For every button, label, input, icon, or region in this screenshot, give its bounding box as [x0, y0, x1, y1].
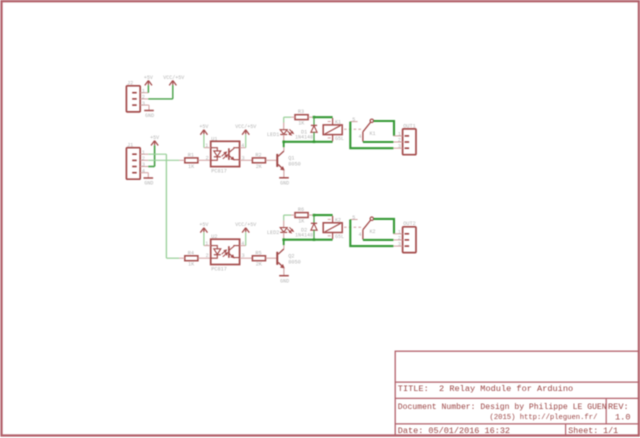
svg-text:2: 2	[142, 95, 145, 101]
svg-text:1: 1	[398, 229, 401, 235]
resistor R4	[179, 250, 211, 267]
svg-text:3: 3	[142, 162, 145, 168]
junction top rail	[313, 214, 316, 217]
mechanical link K1	[344, 128, 362, 130]
optocoupler U2	[205, 234, 244, 272]
document number text	[398, 403, 607, 412]
svg-text:5: 5	[352, 215, 355, 221]
svg-text:K1: K1	[335, 119, 341, 125]
junction bottom rail at LED	[282, 141, 285, 144]
svg-text:1K: 1K	[188, 164, 195, 170]
svg-text:G5L: G5L	[335, 234, 344, 240]
diode D1	[295, 117, 317, 141]
svg-text:1: 1	[398, 131, 401, 137]
svg-text:GND: GND	[145, 113, 154, 119]
svg-text:K1: K1	[370, 131, 376, 137]
svg-text:TITLE: 2 Relay Module for Ard: TITLE: 2 Relay Module for Arduino	[398, 384, 573, 394]
svg-text:VCC/+5V: VCC/+5V	[163, 75, 184, 81]
svg-text:VCC/+5V: VCC/+5V	[235, 124, 256, 130]
svg-text:2K: 2K	[256, 164, 263, 170]
U1 pin stubs	[204, 148, 253, 161]
svg-text:2: 2	[142, 156, 145, 162]
svg-text:R1: R1	[188, 152, 194, 158]
relay coil K1	[323, 118, 344, 142]
svg-text:REV:: REV:	[608, 402, 629, 412]
junction top rail	[313, 116, 316, 119]
OUT2 pin stubs	[393, 234, 402, 246]
LED LED2	[267, 215, 294, 239]
svg-text:2: 2	[398, 138, 401, 144]
connector OUT2	[403, 221, 416, 252]
resistor R1	[179, 152, 211, 169]
svg-text:+5V: +5V	[199, 222, 208, 228]
svg-text:R2: R2	[255, 152, 261, 158]
svg-text:2: 2	[206, 155, 209, 161]
svg-text:OUT2: OUT2	[403, 221, 415, 227]
svg-text:(2015) http://pleguen.fr/: (2015) http://pleguen.fr/	[490, 414, 598, 422]
junction bottom rail at LED	[282, 238, 285, 241]
svg-text:4: 4	[359, 232, 362, 238]
power VCC/+5V at U2 pin4	[235, 222, 256, 246]
ground at J2	[144, 111, 154, 120]
svg-text:PC817: PC817	[211, 267, 227, 273]
wire K1 NO contact to OUT1 pin1	[374, 121, 394, 136]
wire +5V to J1 pin3	[148, 166, 154, 168]
svg-text:8050: 8050	[288, 260, 300, 266]
U2 pin stubs	[204, 246, 253, 259]
svg-text:J1: J1	[127, 142, 133, 148]
svg-text:8050: 8050	[288, 162, 300, 168]
J1 pin numbers 1 2 3 4	[142, 150, 145, 175]
title text	[398, 384, 573, 394]
svg-text:GND: GND	[280, 180, 289, 186]
svg-text:+5V: +5V	[199, 124, 208, 130]
ground at Q2 emitter	[279, 276, 289, 285]
svg-text:3: 3	[142, 101, 145, 107]
wire Q2 collector to rail	[283, 240, 285, 245]
relay contact K2	[350, 215, 375, 240]
junction bottom rail at diode	[313, 238, 316, 241]
svg-text:Document Number: Design by Phi: Document Number: Design by Philippe LE G…	[398, 403, 607, 412]
OUT1 pin stubs	[393, 136, 402, 148]
relay contact K1	[350, 117, 375, 142]
svg-text:1.0: 1.0	[615, 413, 630, 423]
svg-text:U2: U2	[211, 234, 217, 240]
wire bottom rail LED2 to coil K2	[284, 239, 333, 241]
svg-text:K2: K2	[370, 229, 376, 235]
svg-text:R4: R4	[188, 250, 194, 256]
title block frame	[395, 351, 638, 435]
sheet text	[568, 426, 618, 436]
power +5V at J2	[144, 75, 153, 93]
connector OUT1	[403, 123, 416, 154]
svg-text:GND: GND	[280, 278, 289, 284]
wire K2 NO contact to OUT2 pin1	[374, 219, 394, 234]
svg-text:Sheet: 1/1: Sheet: 1/1	[568, 426, 618, 436]
rev label	[608, 402, 629, 412]
OUT2 pin numbers 1 2 3	[398, 229, 401, 247]
J2 pin numbers 1 2 3	[142, 88, 145, 106]
svg-text:R3: R3	[298, 109, 304, 115]
svg-text:3: 3	[398, 144, 401, 150]
svg-text:1K: 1K	[188, 262, 195, 268]
document number text line2	[490, 414, 598, 422]
wire top rail to relay coil K1	[314, 116, 333, 118]
svg-text:1N4148: 1N4148	[295, 135, 313, 141]
rev value	[615, 413, 630, 423]
resistor R3	[291, 109, 313, 126]
svg-text:3: 3	[398, 242, 401, 248]
connector J2	[126, 80, 140, 112]
svg-text:GND: GND	[144, 181, 153, 187]
svg-text:+5V: +5V	[150, 135, 159, 141]
wire J1 pin2 to R1 (net IN1)	[148, 159, 179, 161]
svg-text:PC817: PC817	[211, 169, 227, 175]
wire J1 pin1 to channel2 (net IN2)	[148, 154, 179, 258]
wire K1 common to OUT1 pin2	[363, 141, 394, 143]
svg-text:1: 1	[142, 88, 145, 94]
connector J1	[126, 142, 140, 179]
power +5V at J1	[150, 135, 159, 167]
svg-text:1: 1	[142, 150, 145, 156]
wire bottom rail LED1 to coil K1	[284, 141, 333, 143]
svg-text:OUT1: OUT1	[403, 123, 415, 129]
ground at J1	[144, 178, 154, 187]
wire LED2 anode to R6	[284, 214, 291, 216]
svg-text:2K: 2K	[256, 262, 263, 268]
svg-text:1N4148: 1N4148	[295, 232, 313, 238]
wire J2 pin2 to VCC/+5V	[148, 85, 173, 99]
svg-text:1K: 1K	[298, 121, 305, 127]
svg-text:5: 5	[352, 117, 355, 123]
svg-text:R5: R5	[255, 250, 261, 256]
svg-text:4: 4	[359, 134, 362, 140]
date text	[398, 426, 510, 436]
svg-text:2: 2	[398, 235, 401, 241]
OUT1 pin numbers 1 2 3	[398, 131, 401, 149]
svg-text:J2: J2	[127, 80, 133, 86]
resistor R2	[252, 152, 276, 169]
LED LED1	[267, 117, 294, 141]
wire K2 common to OUT2 pin2	[363, 239, 394, 241]
J2 pin stubs	[140, 93, 148, 105]
junction bottom rail at diode	[313, 141, 316, 144]
transistor Q1	[276, 147, 300, 177]
wire top rail to relay coil K2	[314, 214, 333, 216]
ground at Q1 emitter	[279, 178, 289, 187]
svg-text:G5L: G5L	[335, 136, 344, 142]
power VCC/+5V at J2	[163, 75, 184, 86]
resistor R5	[252, 250, 276, 267]
svg-text:4: 4	[142, 168, 145, 174]
svg-text:U1: U1	[211, 136, 217, 142]
svg-text:LED2: LED2	[267, 230, 279, 236]
diode D2	[295, 215, 317, 239]
svg-text:+5V: +5V	[144, 75, 153, 81]
power +5V at U1 pin1	[199, 124, 208, 148]
svg-text:Date: 05/01/2016 16:32: Date: 05/01/2016 16:32	[398, 426, 510, 436]
relay coil K2	[323, 216, 344, 240]
svg-text:2: 2	[206, 253, 209, 259]
power VCC/+5V at U1 pin4	[235, 124, 256, 148]
J1 pin stubs	[140, 154, 148, 173]
svg-text:LED1: LED1	[267, 132, 279, 138]
svg-text:R6: R6	[298, 207, 304, 213]
resistor R6	[291, 207, 313, 224]
wire J2 pin3 to ground	[147, 105, 150, 110]
svg-text:VCC/+5V: VCC/+5V	[235, 222, 256, 228]
optocoupler U1	[205, 136, 244, 174]
wire K1 NC contact to OUT1 pin3	[350, 122, 393, 149]
mechanical link K2	[344, 226, 362, 228]
transistor Q2	[276, 245, 300, 275]
svg-text:K2: K2	[335, 217, 341, 223]
wire K2 NC contact to OUT2 pin3	[350, 220, 393, 247]
power +5V at U2 pin1	[199, 222, 208, 246]
wire Q1 collector to rail	[283, 142, 285, 147]
svg-text:1K: 1K	[298, 219, 305, 225]
wire LED1 anode to R3	[284, 116, 291, 118]
wire J1 pin4 to ground	[147, 173, 149, 178]
